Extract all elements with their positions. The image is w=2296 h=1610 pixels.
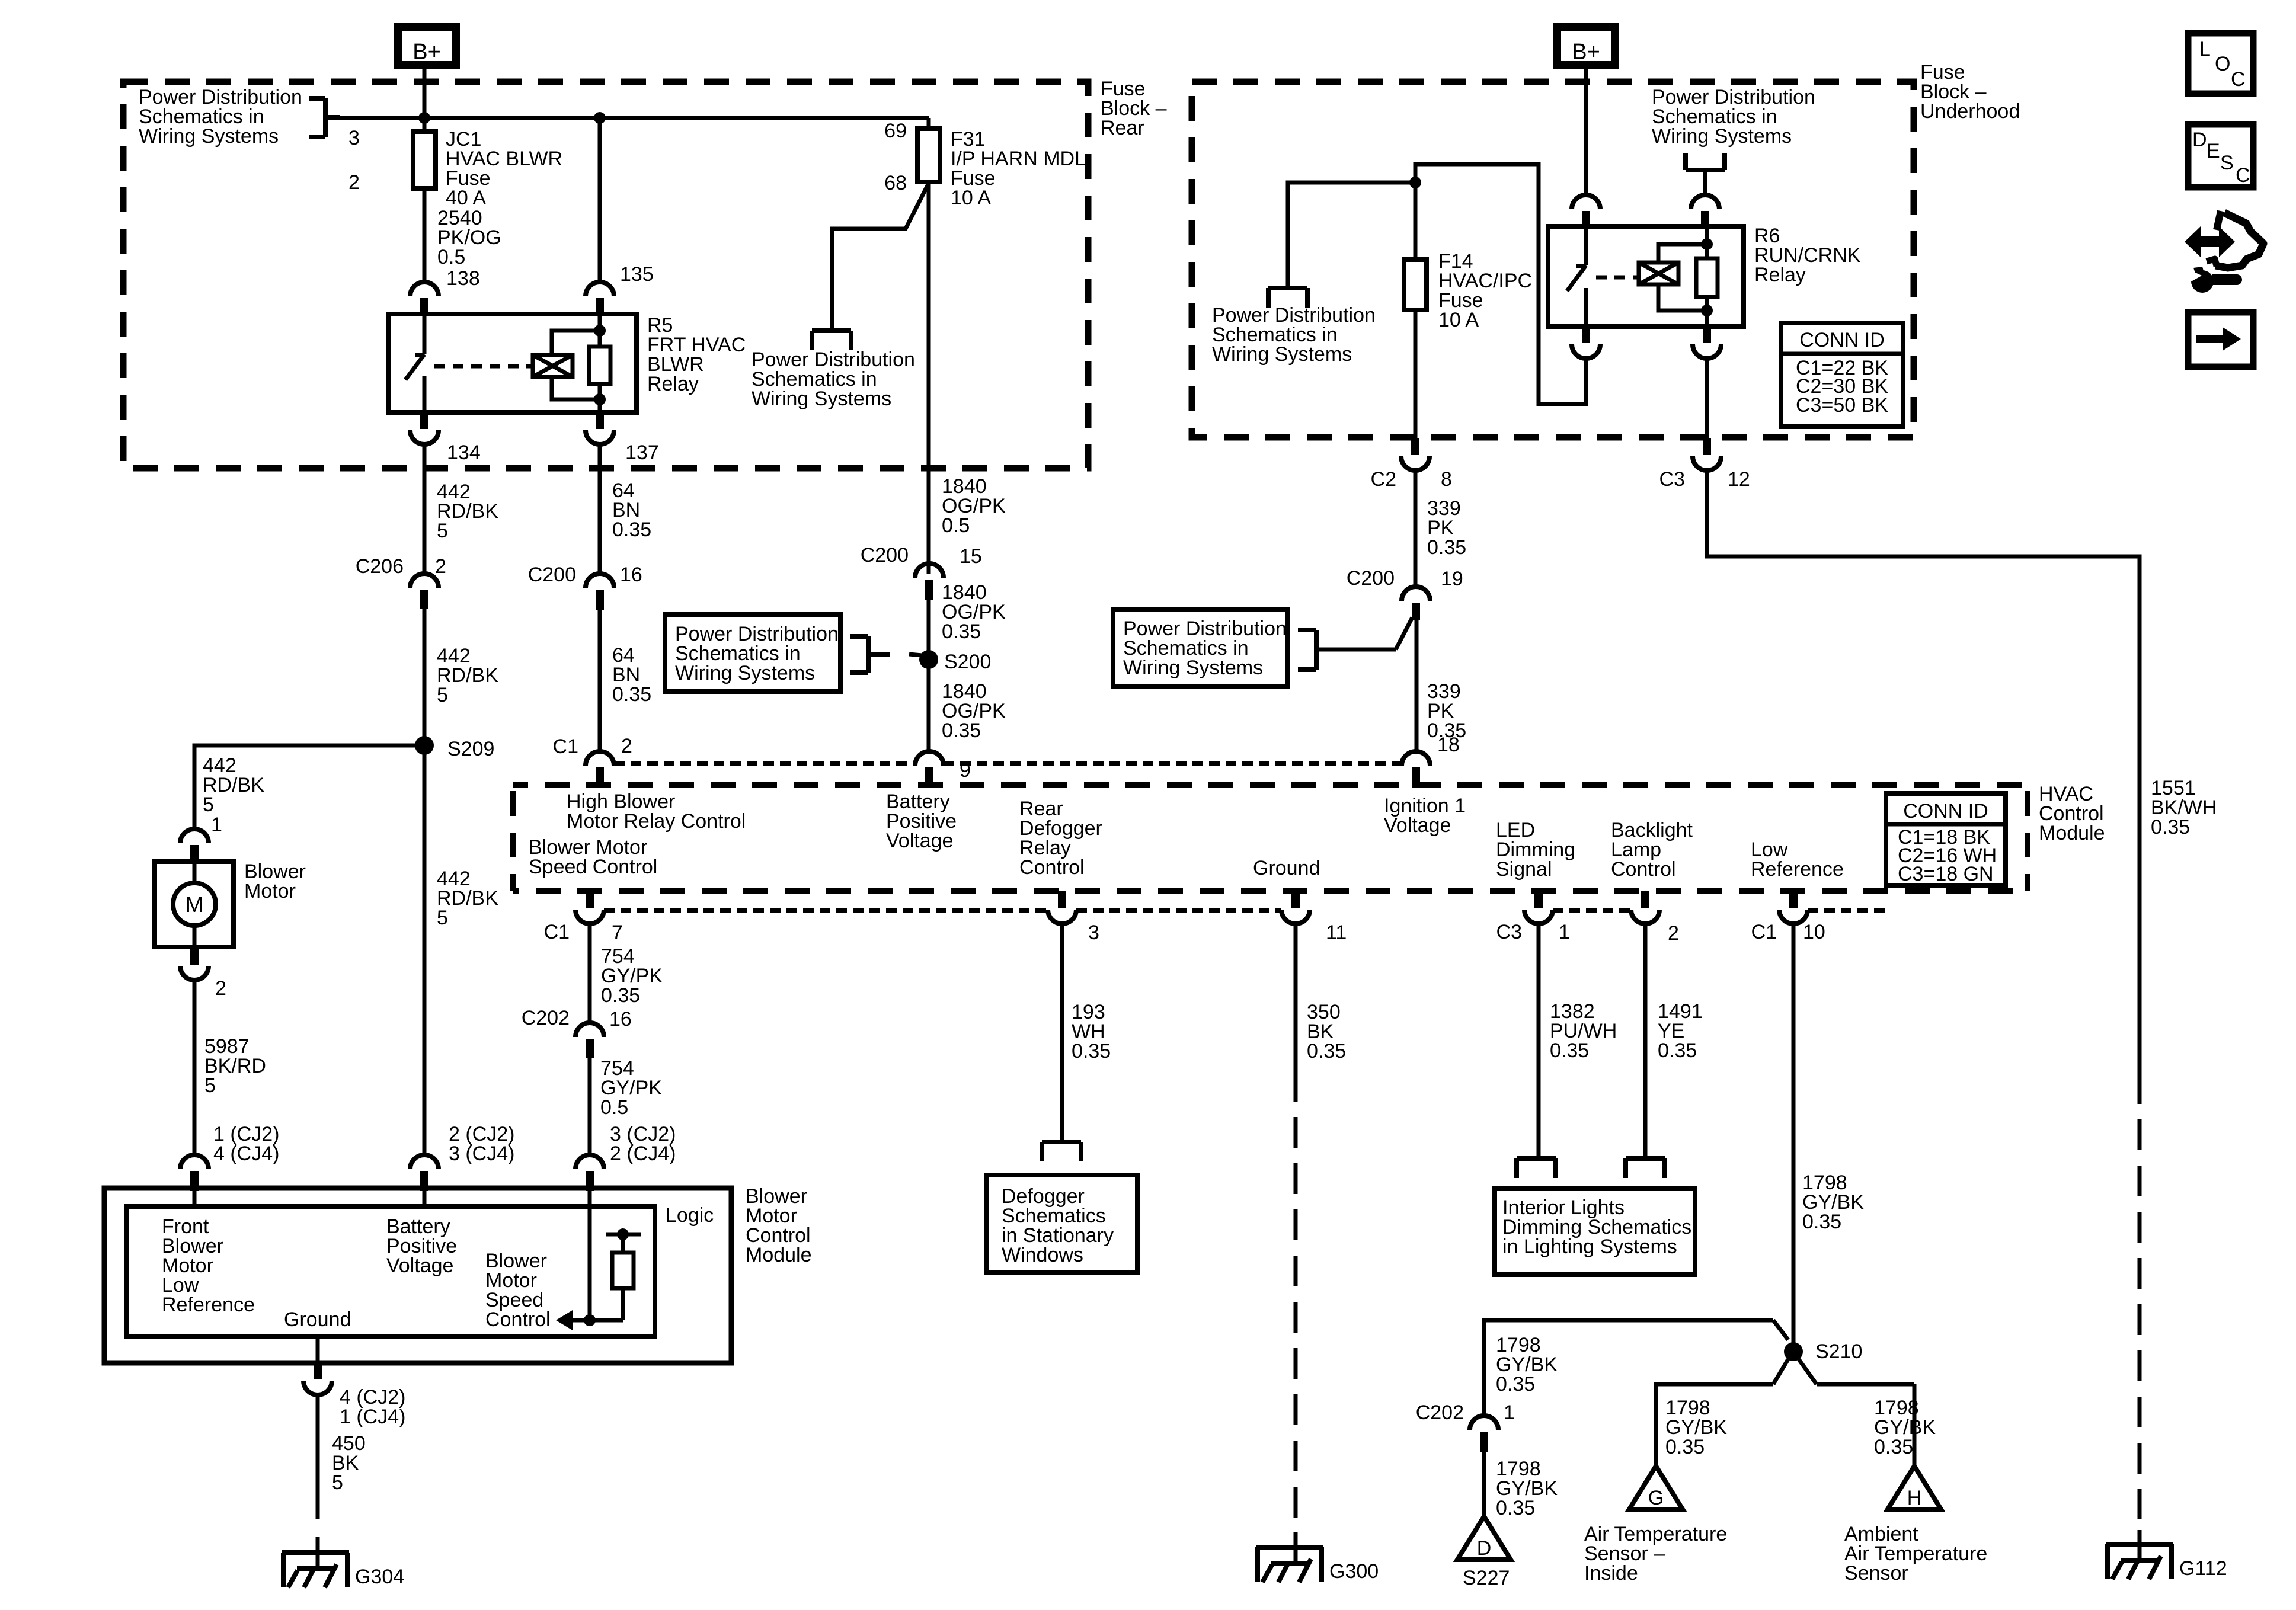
fuse block rear dashed enclosure — [123, 82, 1088, 468]
svg-text:16: 16 — [609, 1008, 632, 1030]
connector face dotted line bottom C3 — [1553, 908, 1631, 913]
wire S210 branch to air temp sensor — [1773, 1359, 1788, 1384]
svg-text:Motor: Motor — [244, 880, 296, 902]
svg-text:11: 11 — [1326, 921, 1347, 944]
relay R5 mechanical link dashed — [434, 364, 533, 369]
svg-text:G: G — [1648, 1487, 1664, 1509]
svg-text:G304: G304 — [355, 1566, 404, 1588]
blower motor control module outer box — [104, 1188, 731, 1363]
svg-text:1 (CJ4): 1 (CJ4) — [340, 1406, 405, 1428]
svg-text:0.35: 0.35 — [1802, 1211, 1841, 1233]
svg-text:0.35: 0.35 — [1550, 1039, 1589, 1062]
bracket from boxed reference to S200 — [866, 636, 871, 673]
tap to power distribution reference (F31) — [832, 183, 929, 329]
ground pin out of module — [316, 1336, 320, 1363]
power symbol B+ (left) — [398, 27, 456, 65]
bus wire horizontal — [325, 116, 929, 120]
splice S209 — [415, 736, 434, 755]
svg-text:C: C — [2231, 68, 2246, 91]
relay R5 coil feed wire from bus — [598, 118, 602, 282]
boxed reference Interior Lights Dimming — [1495, 1189, 1695, 1275]
fuse JC1 HVAC BLWR 40A — [413, 132, 436, 188]
wire reference to relay coil — [1703, 170, 1707, 196]
svg-text:2 (CJ4): 2 (CJ4) — [610, 1142, 676, 1165]
svg-text:0.35: 0.35 — [2151, 816, 2190, 838]
svg-text:C2: C2 — [1371, 468, 1396, 491]
bracket to reference text (F31) — [812, 328, 851, 333]
svg-text:Module: Module — [746, 1244, 812, 1266]
svg-text:C206: C206 — [356, 555, 404, 578]
ground G112 — [2106, 1542, 2173, 1547]
wire 1798 GY/BK main — [1792, 924, 1796, 1343]
wire 450 BK — [316, 1395, 320, 1519]
svg-text:10: 10 — [1803, 921, 1825, 943]
wire pin3 into module to speed control — [588, 1191, 592, 1320]
svg-text:S: S — [2220, 152, 2234, 174]
svg-text:0.35: 0.35 — [1665, 1436, 1705, 1458]
connector clip blower motor pin 2 — [190, 947, 199, 965]
fuse F31 I/P HARN MDL 10A — [917, 129, 940, 182]
wire 193 WH — [1060, 924, 1064, 1141]
svg-text:0.35: 0.35 — [942, 719, 981, 742]
svg-text:15: 15 — [960, 545, 982, 568]
svg-text:0.35: 0.35 — [1496, 1373, 1535, 1395]
connector C3 pin 12 — [1703, 438, 1711, 455]
connector face dotted line bottom C1 — [604, 908, 1048, 913]
relay R6 coil — [1639, 263, 1678, 284]
svg-text:Windows: Windows — [1002, 1244, 1083, 1266]
svg-text:0.35: 0.35 — [1072, 1040, 1111, 1062]
connector C1 pin 10 out of module — [1789, 891, 1798, 908]
svg-text:5: 5 — [203, 793, 214, 816]
svg-text:C202: C202 — [522, 1007, 570, 1029]
svg-text:C: C — [2236, 164, 2250, 187]
svg-text:Relay: Relay — [647, 373, 699, 395]
svg-text:B+: B+ — [412, 40, 441, 65]
svg-text:134: 134 — [447, 441, 481, 464]
svg-text:18: 18 — [1437, 734, 1460, 756]
svg-text:C3=50 BK: C3=50 BK — [1796, 394, 1888, 417]
svg-text:D: D — [1477, 1537, 1492, 1560]
svg-text:C3: C3 — [1496, 921, 1522, 943]
svg-text:5: 5 — [204, 1074, 216, 1097]
connector pin 3 out of module — [1058, 891, 1066, 908]
svg-text:68: 68 — [884, 172, 907, 194]
power symbol B+ (right) — [1557, 27, 1615, 65]
boxed reference Power Distribution (S200) — [665, 614, 840, 692]
svg-text:10 A: 10 A — [1438, 309, 1479, 331]
wire 1551 dashed continuation — [2138, 1073, 2142, 1519]
svg-text:CONN ID: CONN ID — [1799, 329, 1885, 351]
svg-text:C202: C202 — [1416, 1401, 1464, 1424]
speed control arrow — [584, 1314, 596, 1326]
connector clip relay R6 coil out — [1703, 327, 1711, 343]
speed control resistor — [590, 1318, 623, 1323]
svg-text:40 A: 40 A — [446, 187, 486, 209]
svg-text:Voltage: Voltage — [386, 1254, 453, 1277]
svg-text:C1: C1 — [1751, 921, 1777, 943]
svg-text:O: O — [2215, 53, 2230, 75]
wire 1798 to S227 triangle — [1482, 1452, 1486, 1516]
connector pin 11 out of module — [1291, 891, 1300, 908]
bracket to reference (rear block) — [323, 98, 328, 137]
svg-text:Module: Module — [2039, 822, 2105, 844]
HVAC control module dashed enclosure — [513, 782, 2028, 788]
svg-text:C200: C200 — [528, 564, 576, 586]
connector clip relay R6 coil top — [1691, 195, 1719, 209]
svg-text:Wiring Systems: Wiring Systems — [675, 662, 815, 684]
svg-text:4 (CJ4): 4 (CJ4) — [213, 1142, 279, 1165]
svg-text:Control: Control — [485, 1308, 551, 1331]
connector clip relay R6 pin 30 — [1572, 195, 1600, 209]
wire 442 RD/BK upper — [423, 444, 427, 574]
wire F14 to C2-8 — [1414, 310, 1418, 438]
wire 1840 OG/PK 0.35 upper — [927, 600, 931, 660]
wire 339 PK upper — [1414, 470, 1418, 587]
svg-text:Sensor: Sensor — [1844, 1562, 1908, 1585]
triangle G air temperature sensor inside — [1629, 1466, 1683, 1509]
tap from power distribution reference (C200-19) — [1396, 617, 1412, 649]
connector clip pin 137 — [596, 412, 604, 429]
svg-text:Ground: Ground — [284, 1308, 351, 1331]
boxed reference Defogger Schematics — [987, 1175, 1137, 1273]
svg-text:D: D — [2192, 129, 2207, 151]
svg-text:0.35: 0.35 — [1658, 1039, 1697, 1062]
bracket to defogger reference — [1042, 1140, 1081, 1144]
svg-text:Underhood: Underhood — [1920, 100, 2020, 123]
icon arrow box — [2188, 312, 2253, 367]
relay R5 FRT HVAC BLWR box — [389, 314, 637, 412]
svg-text:G300: G300 — [1329, 1560, 1379, 1583]
icon wrench — [2212, 274, 2242, 285]
svg-text:in Lighting Systems: in Lighting Systems — [1502, 1235, 1677, 1258]
svg-text:Control: Control — [1611, 858, 1676, 881]
svg-text:Wiring Systems: Wiring Systems — [1123, 657, 1263, 679]
bracket below reference (underhood top) — [1686, 168, 1725, 172]
svg-text:B+: B+ — [1572, 40, 1600, 65]
svg-text:5: 5 — [437, 907, 448, 929]
relay R6 mechanical link dashed — [1596, 276, 1637, 280]
svg-text:5: 5 — [332, 1471, 343, 1494]
svg-text:135: 135 — [620, 263, 654, 286]
wire coil out to C3-12 — [1705, 359, 1709, 438]
connector C3 pin 1 out of module — [1534, 891, 1543, 908]
wire 754 GY/PK 0.5 — [588, 1058, 592, 1156]
connector face dotted line bottom right — [1808, 908, 1888, 913]
blower motor control module inner box — [126, 1206, 655, 1336]
wire branch to blower motor — [194, 745, 424, 829]
wire 5987 BK/RD — [193, 980, 197, 1156]
relay R5 switch — [423, 314, 427, 354]
wire 442 RD/BK lower — [423, 745, 427, 1156]
svg-text:2: 2 — [215, 977, 226, 1000]
svg-text:69: 69 — [884, 120, 907, 142]
connector clip relay R6 switch out — [1582, 327, 1590, 343]
svg-text:C3=18 GN: C3=18 GN — [1898, 863, 1994, 885]
connector clip pin 135 — [586, 282, 614, 296]
svg-text:Relay: Relay — [1754, 264, 1806, 286]
connector clip blower motor pin 1 — [180, 829, 209, 843]
connector clip pin 138 — [410, 282, 439, 296]
svg-text:S200: S200 — [944, 651, 991, 673]
wire pin1 into module — [193, 1191, 197, 1209]
svg-text:M: M — [186, 892, 203, 917]
blower motor — [155, 862, 234, 947]
svg-text:S227: S227 — [1463, 1567, 1510, 1589]
svg-text:H: H — [1907, 1487, 1922, 1509]
svg-text:0.5: 0.5 — [437, 246, 465, 268]
wire to fuse F31 — [927, 118, 931, 129]
wire 64 BN lower — [598, 610, 602, 751]
connector face dotted line top — [614, 761, 915, 766]
svg-text:138: 138 — [446, 267, 480, 290]
svg-text:0.35: 0.35 — [942, 620, 981, 643]
wire S210 branch to ambient sensor — [1799, 1359, 1817, 1384]
svg-text:Motor Relay Control: Motor Relay Control — [567, 810, 746, 833]
svg-text:G112: G112 — [2179, 1557, 2227, 1580]
svg-text:Reference: Reference — [162, 1294, 255, 1316]
svg-text:Wiring Systems: Wiring Systems — [1652, 125, 1792, 148]
svg-text:16: 16 — [620, 564, 642, 586]
connector clip module pin 3CJ2 — [575, 1155, 604, 1169]
svg-text:2: 2 — [1668, 922, 1679, 945]
svg-text:19: 19 — [1441, 568, 1463, 590]
wire 64 BN upper — [598, 444, 602, 574]
relay R6 switch — [1584, 226, 1588, 265]
junction at B+ wire — [418, 112, 430, 124]
triangle D connector S227 — [1457, 1516, 1511, 1560]
wire to ambient triangle — [1817, 1382, 1914, 1387]
svg-text:5: 5 — [437, 520, 448, 542]
svg-text:0.35: 0.35 — [601, 984, 640, 1007]
splice S210 — [1784, 1342, 1803, 1361]
svg-text:0.35: 0.35 — [1307, 1040, 1346, 1062]
svg-text:C3: C3 — [1659, 468, 1685, 491]
ground G300 — [1256, 1545, 1323, 1550]
connector clip module pin 1CJ2 — [180, 1155, 209, 1169]
relay R5 coil suppression resistor — [589, 347, 610, 384]
svg-text:0.5: 0.5 — [942, 514, 970, 537]
conn id table underhood — [1781, 323, 1903, 427]
svg-text:C1: C1 — [553, 735, 578, 758]
svg-text:8: 8 — [1441, 468, 1452, 491]
junction at relay coil feed — [594, 112, 606, 124]
fuse block underhood dashed enclosure — [1192, 82, 1914, 437]
wire 1491 YE — [1643, 924, 1648, 1157]
wire 1551 BK/WH — [1707, 470, 2140, 1073]
svg-text:Speed Control: Speed Control — [529, 856, 657, 878]
wire B+ right down — [1584, 65, 1588, 196]
wire junction to reference (underhood left) — [1288, 183, 1415, 287]
svg-text:5: 5 — [437, 684, 448, 706]
svg-text:1: 1 — [211, 814, 222, 836]
icon LOC box — [2188, 33, 2253, 94]
svg-text:C200: C200 — [861, 544, 909, 566]
svg-text:3 (CJ4): 3 (CJ4) — [449, 1142, 514, 1165]
wire 754 GY/PK 0.35 — [588, 924, 592, 1023]
svg-text:Voltage: Voltage — [886, 830, 953, 852]
wire 1382 PU/WH — [1537, 924, 1541, 1157]
svg-text:Signal: Signal — [1496, 858, 1552, 881]
bracket wire2 to interior lights box — [1626, 1156, 1665, 1161]
bracket wire1 to interior lights box — [1517, 1156, 1556, 1161]
svg-text:Voltage: Voltage — [1384, 814, 1451, 837]
relay R6 coil suppression resistor — [1696, 258, 1718, 297]
junction at F14 feed — [1409, 177, 1421, 188]
svg-text:7: 7 — [612, 921, 623, 944]
svg-text:S209: S209 — [447, 738, 494, 760]
triangle H ambient air temperature sensor — [1888, 1466, 1941, 1509]
fuse F14 HVAC/IPC 10A — [1414, 183, 1418, 260]
connector pin 2 out of module — [1641, 891, 1649, 908]
svg-text:Reference: Reference — [1751, 858, 1844, 881]
bracket from boxed reference (ignition) — [1314, 630, 1319, 670]
connector C1 pin 7 out of module — [586, 891, 594, 908]
wire B+ down to bus — [423, 65, 427, 132]
wire 1840 OG/PK from F31 — [927, 182, 931, 574]
wire 1840 OG/PK 0.35 lower — [927, 660, 931, 751]
svg-text:CONN ID: CONN ID — [1903, 800, 1988, 822]
svg-text:E: E — [2207, 140, 2220, 162]
wire 442 RD/BK middle — [423, 609, 427, 745]
svg-text:Logic: Logic — [666, 1204, 714, 1227]
icon double arrow with wrench — [2185, 226, 2235, 257]
svg-text:Wiring Systems: Wiring Systems — [139, 125, 279, 148]
splice S200 — [919, 650, 938, 669]
connector clip pin 134 — [420, 412, 428, 429]
wire 2540 PK/OG — [423, 188, 427, 282]
svg-text:0.35: 0.35 — [1496, 1497, 1535, 1519]
relay R5 coil — [533, 355, 573, 377]
wire 350 BK dashed continuation — [1294, 1071, 1298, 1521]
svg-text:Wiring Systems: Wiring Systems — [1212, 343, 1352, 366]
wire pin2 into module — [423, 1191, 427, 1209]
svg-text:10 A: 10 A — [951, 187, 991, 209]
wire relay R6 switch loop to F14 junction — [1415, 164, 1586, 404]
svg-text:2: 2 — [435, 555, 446, 578]
svg-text:L: L — [2199, 38, 2211, 60]
svg-text:Control: Control — [1019, 856, 1085, 879]
svg-text:Wiring Systems: Wiring Systems — [752, 388, 891, 410]
connector clip module pin 2CJ2 — [410, 1155, 439, 1169]
ground G304 — [282, 1550, 349, 1555]
wire S210 branch to C202-1 — [1484, 1320, 1773, 1416]
svg-text:2: 2 — [621, 735, 632, 757]
boxed reference Power Distribution (ignition) — [1113, 609, 1287, 686]
svg-text:0.35: 0.35 — [1874, 1436, 1913, 1458]
svg-text:0.35: 0.35 — [612, 683, 651, 706]
svg-text:12: 12 — [1728, 468, 1750, 491]
svg-text:3: 3 — [348, 127, 360, 149]
svg-text:Ground: Ground — [1253, 857, 1320, 879]
svg-text:0.35: 0.35 — [612, 518, 651, 541]
svg-text:Inside: Inside — [1584, 1562, 1638, 1585]
svg-text:S210: S210 — [1815, 1340, 1862, 1363]
svg-text:Rear: Rear — [1101, 117, 1144, 139]
svg-text:137: 137 — [625, 441, 659, 464]
svg-text:1: 1 — [1504, 1401, 1515, 1424]
icon DESC box — [2188, 124, 2253, 187]
svg-text:C1: C1 — [544, 921, 570, 943]
connector C2 pin 8 — [1411, 438, 1419, 455]
svg-text:1: 1 — [1559, 921, 1570, 943]
svg-text:3: 3 — [1088, 921, 1099, 944]
svg-text:0.35: 0.35 — [1427, 536, 1466, 559]
relay R6 RUN/CRNK box — [1548, 226, 1744, 327]
svg-text:C200: C200 — [1347, 567, 1395, 590]
wire 350 BK — [1294, 924, 1298, 1071]
conn id table HVAC — [1886, 793, 2006, 885]
svg-text:2: 2 — [348, 171, 360, 194]
svg-text:0.5: 0.5 — [600, 1096, 628, 1119]
wire 339 PK lower — [1415, 620, 1419, 751]
bracket to reference (underhood left) — [1268, 286, 1307, 290]
